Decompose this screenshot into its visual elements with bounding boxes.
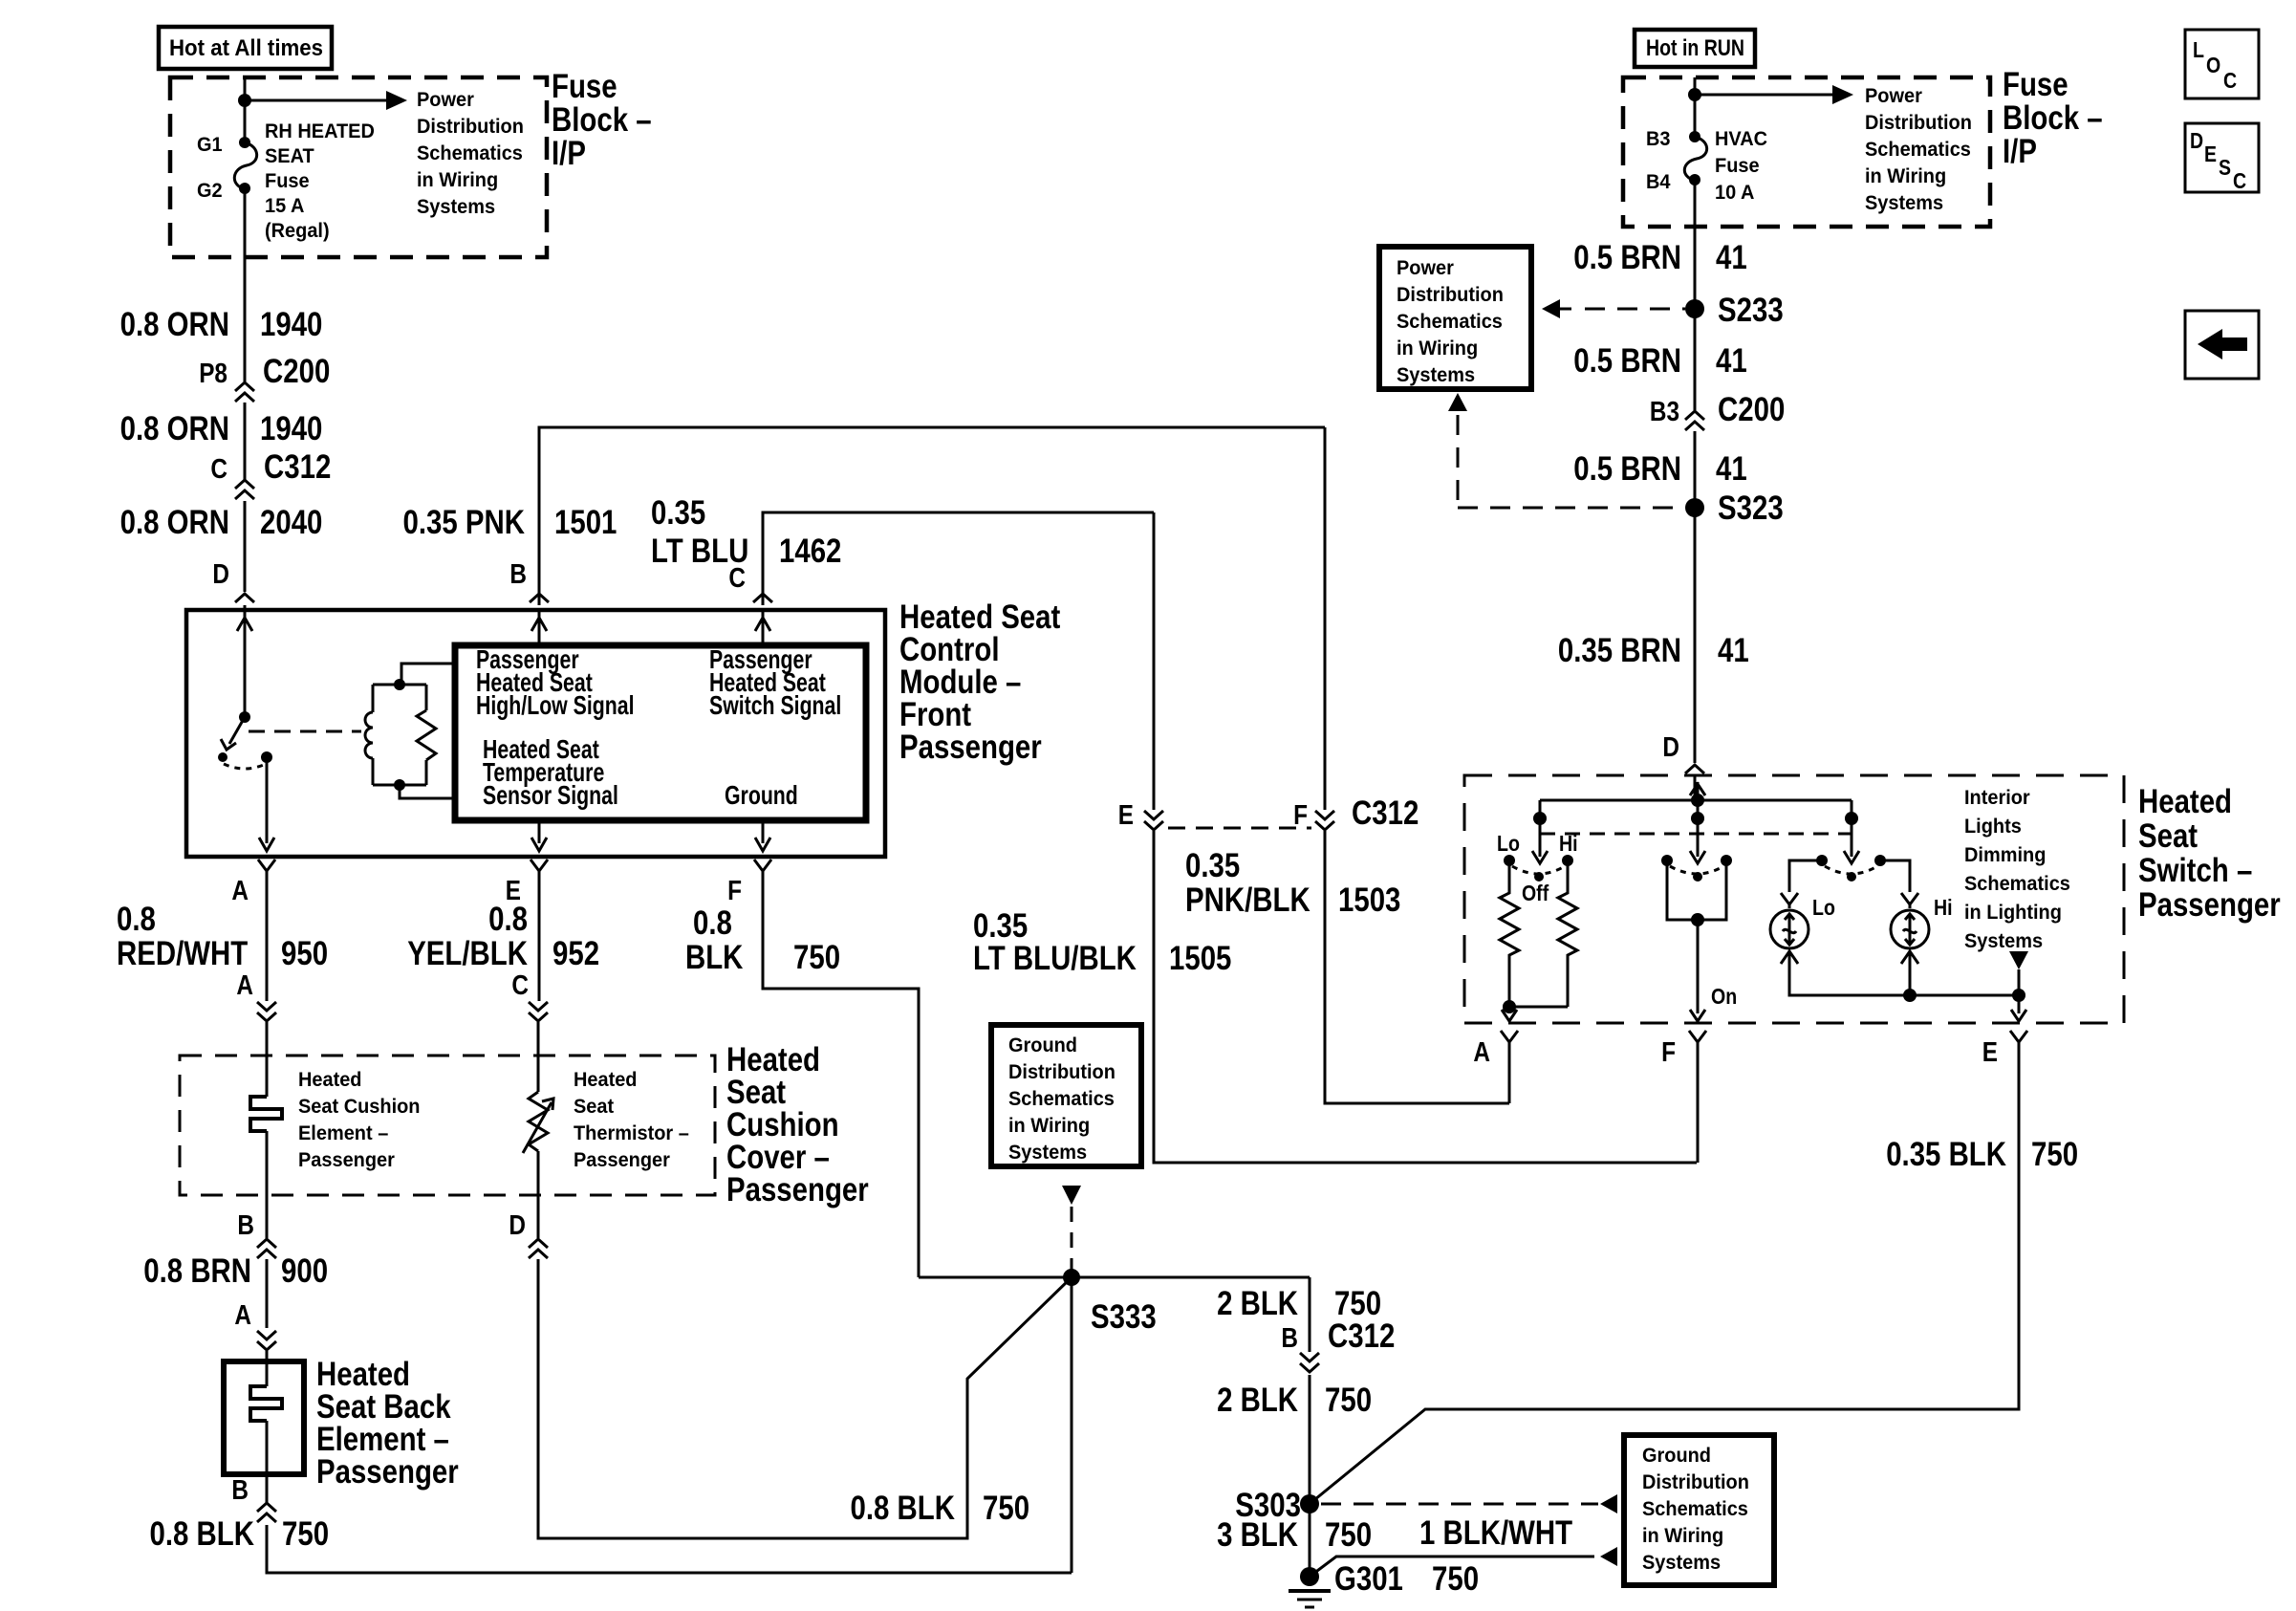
- svg-text:0.5 BRN: 0.5 BRN: [1573, 239, 1681, 276]
- svg-text:Schematics: Schematics: [1397, 311, 1503, 333]
- svg-text:Fuse: Fuse: [552, 68, 617, 105]
- svg-text:G1: G1: [197, 134, 223, 156]
- svg-text:I/P: I/P: [552, 135, 586, 172]
- svg-text:1503: 1503: [1338, 882, 1400, 919]
- svg-text:750: 750: [282, 1515, 329, 1553]
- svg-text:F: F: [1661, 1037, 1676, 1068]
- svg-text:G301: G301: [1334, 1560, 1403, 1598]
- svg-text:Passenger: Passenger: [899, 729, 1042, 766]
- svg-text:0.8: 0.8: [117, 901, 156, 938]
- svg-text:High/Low Signal: High/Low Signal: [476, 690, 635, 720]
- svg-text:C200: C200: [263, 353, 330, 390]
- svg-text:C312: C312: [1352, 795, 1419, 832]
- svg-text:Sensor Signal: Sensor Signal: [483, 780, 618, 810]
- svg-text:Distribution: Distribution: [1642, 1471, 1749, 1493]
- svg-text:G2: G2: [197, 180, 223, 202]
- svg-text:F: F: [727, 876, 742, 906]
- svg-text:E: E: [1982, 1037, 1998, 1068]
- svg-text:B: B: [509, 559, 527, 590]
- svg-text:Distribution: Distribution: [1397, 284, 1504, 306]
- svg-text:1940: 1940: [260, 410, 322, 447]
- svg-text:0.8 ORN: 0.8 ORN: [120, 504, 229, 541]
- svg-text:Schematics: Schematics: [417, 142, 523, 164]
- svg-text:O: O: [2206, 53, 2220, 77]
- svg-text:750: 750: [1325, 1382, 1372, 1419]
- svg-text:RH HEATED: RH HEATED: [265, 120, 375, 142]
- svg-text:0.35: 0.35: [1185, 847, 1240, 884]
- svg-text:Seat Cushion: Seat Cushion: [298, 1096, 421, 1118]
- svg-text:41: 41: [1716, 342, 1747, 380]
- svg-text:750: 750: [793, 939, 840, 976]
- svg-text:0.8 ORN: 0.8 ORN: [120, 410, 229, 447]
- svg-text:Lo: Lo: [1812, 895, 1835, 920]
- svg-text:Fuse: Fuse: [265, 170, 310, 192]
- svg-text:S333: S333: [1091, 1298, 1157, 1336]
- svg-text:L: L: [2193, 37, 2204, 62]
- svg-text:900: 900: [281, 1252, 328, 1290]
- svg-text:1940: 1940: [260, 306, 322, 343]
- svg-text:C312: C312: [264, 448, 331, 486]
- svg-text:D: D: [2190, 128, 2203, 153]
- svg-text:E: E: [2204, 142, 2217, 166]
- svg-text:Lights: Lights: [1964, 816, 2022, 838]
- svg-text:RED/WHT: RED/WHT: [117, 935, 248, 972]
- svg-text:Hot in RUN: Hot in RUN: [1646, 35, 1744, 61]
- svg-text:0.35: 0.35: [651, 494, 705, 532]
- svg-text:(Regal): (Regal): [265, 220, 330, 242]
- svg-text:Passenger: Passenger: [298, 1149, 395, 1171]
- svg-text:0.8 ORN: 0.8 ORN: [120, 306, 229, 343]
- svg-text:in Wiring: in Wiring: [1865, 165, 1946, 187]
- svg-text:Ground: Ground: [1008, 1034, 1077, 1056]
- svg-text:952: 952: [552, 935, 599, 972]
- svg-text:Seat: Seat: [574, 1096, 614, 1118]
- svg-text:0.35 BRN: 0.35 BRN: [1558, 632, 1681, 669]
- svg-text:Systems: Systems: [1642, 1552, 1721, 1574]
- svg-text:Distribution: Distribution: [1008, 1061, 1116, 1083]
- svg-text:Schematics: Schematics: [1008, 1088, 1115, 1110]
- svg-text:D: D: [212, 559, 229, 590]
- svg-text:Seat: Seat: [2138, 817, 2198, 855]
- svg-text:P8: P8: [199, 359, 227, 389]
- svg-text:41: 41: [1716, 450, 1747, 488]
- svg-text:2 BLK: 2 BLK: [1217, 1285, 1298, 1322]
- svg-text:Schematics: Schematics: [1865, 139, 1971, 161]
- svg-text:D: D: [509, 1210, 526, 1241]
- svg-text:Power: Power: [1397, 257, 1454, 279]
- svg-text:Systems: Systems: [1964, 930, 2043, 952]
- svg-text:Systems: Systems: [1397, 364, 1475, 386]
- svg-text:0.8 BRN: 0.8 BRN: [143, 1252, 251, 1290]
- svg-text:in Wiring: in Wiring: [1008, 1115, 1090, 1137]
- svg-text:Heated: Heated: [574, 1069, 638, 1091]
- svg-text:1505: 1505: [1169, 940, 1231, 977]
- svg-text:C: C: [2223, 68, 2237, 93]
- svg-text:Switch Signal: Switch Signal: [709, 690, 841, 720]
- svg-text:A: A: [234, 1300, 251, 1331]
- svg-text:Heated: Heated: [298, 1069, 362, 1091]
- svg-text:Hi: Hi: [1559, 831, 1578, 856]
- svg-text:LT BLU/BLK: LT BLU/BLK: [973, 940, 1137, 977]
- svg-text:F: F: [1293, 800, 1308, 831]
- svg-text:Switch –: Switch –: [2138, 852, 2252, 889]
- svg-text:HVAC: HVAC: [1715, 128, 1767, 150]
- svg-text:S: S: [2219, 155, 2231, 180]
- svg-text:Dimming: Dimming: [1964, 844, 2046, 866]
- svg-text:15 A: 15 A: [265, 195, 304, 217]
- svg-text:Systems: Systems: [1008, 1142, 1087, 1164]
- svg-text:0.35 PNK: 0.35 PNK: [403, 504, 526, 541]
- svg-text:Hi: Hi: [1934, 895, 1953, 920]
- svg-text:in Wiring: in Wiring: [1397, 337, 1478, 359]
- svg-text:Interior: Interior: [1964, 787, 2030, 809]
- svg-text:in Wiring: in Wiring: [417, 169, 498, 191]
- svg-text:1462: 1462: [779, 533, 841, 570]
- svg-text:750: 750: [983, 1490, 1029, 1527]
- svg-text:C312: C312: [1328, 1317, 1395, 1355]
- svg-text:S233: S233: [1718, 292, 1784, 329]
- svg-text:in Lighting: in Lighting: [1964, 902, 2062, 924]
- svg-text:Power: Power: [1865, 85, 1922, 107]
- svg-text:Schematics: Schematics: [1964, 873, 2070, 895]
- svg-text:41: 41: [1718, 632, 1749, 669]
- svg-text:B3: B3: [1646, 128, 1671, 150]
- svg-text:Off: Off: [1522, 881, 1549, 905]
- svg-text:C: C: [511, 970, 529, 1001]
- svg-text:1 BLK/WHT: 1 BLK/WHT: [1419, 1514, 1572, 1552]
- svg-text:B: B: [1281, 1323, 1298, 1354]
- svg-text:Block –: Block –: [2003, 99, 2103, 137]
- svg-text:Heated: Heated: [2138, 783, 2232, 820]
- svg-text:C200: C200: [1718, 391, 1785, 428]
- svg-text:950: 950: [281, 935, 328, 972]
- svg-text:0.35 BLK: 0.35 BLK: [1886, 1136, 2006, 1173]
- svg-text:Passenger: Passenger: [2138, 886, 2281, 924]
- svg-text:Passenger: Passenger: [316, 1453, 459, 1491]
- svg-text:0.8 BLK: 0.8 BLK: [150, 1515, 255, 1553]
- svg-text:Passenger: Passenger: [726, 1171, 869, 1208]
- svg-text:B: B: [231, 1475, 249, 1506]
- svg-text:SEAT: SEAT: [265, 145, 314, 167]
- svg-text:0.8: 0.8: [488, 901, 528, 938]
- svg-text:Systems: Systems: [417, 196, 495, 218]
- svg-text:10 A: 10 A: [1715, 182, 1754, 204]
- svg-text:Thermistor –: Thermistor –: [574, 1122, 689, 1144]
- svg-text:S323: S323: [1718, 490, 1784, 527]
- svg-text:Schematics: Schematics: [1642, 1498, 1748, 1520]
- svg-text:C: C: [728, 563, 746, 594]
- svg-text:E: E: [1118, 800, 1134, 831]
- svg-text:YEL/BLK: YEL/BLK: [407, 935, 528, 972]
- svg-text:Power: Power: [417, 89, 474, 111]
- svg-text:Passenger: Passenger: [574, 1149, 670, 1171]
- svg-text:2 BLK: 2 BLK: [1217, 1382, 1298, 1419]
- svg-text:Distribution: Distribution: [417, 116, 524, 138]
- svg-text:0.8 BLK: 0.8 BLK: [851, 1490, 956, 1527]
- svg-text:Block –: Block –: [552, 101, 652, 139]
- svg-text:in Wiring: in Wiring: [1642, 1525, 1723, 1547]
- svg-text:2040: 2040: [260, 504, 322, 541]
- svg-text:Ground: Ground: [725, 780, 798, 810]
- svg-text:Distribution: Distribution: [1865, 112, 1972, 134]
- svg-text:A: A: [236, 970, 253, 1001]
- svg-text:B3: B3: [1650, 397, 1679, 427]
- svg-text:3 BLK: 3 BLK: [1217, 1516, 1298, 1554]
- svg-text:Fuse: Fuse: [2003, 66, 2069, 103]
- svg-text:C: C: [2233, 168, 2246, 193]
- svg-text:Fuse: Fuse: [1715, 155, 1760, 177]
- svg-text:0.8: 0.8: [693, 904, 732, 942]
- svg-text:PNK/BLK: PNK/BLK: [1185, 882, 1310, 919]
- svg-text:0.5 BRN: 0.5 BRN: [1573, 342, 1681, 380]
- svg-text:C: C: [210, 454, 227, 485]
- svg-text:750: 750: [2031, 1136, 2078, 1173]
- svg-text:I/P: I/P: [2003, 133, 2037, 170]
- svg-text:750: 750: [1432, 1560, 1479, 1598]
- svg-text:0.5 BRN: 0.5 BRN: [1573, 450, 1681, 488]
- svg-text:On: On: [1711, 984, 1737, 1009]
- svg-text:Hot at All times: Hot at All times: [169, 35, 323, 61]
- svg-text:Lo: Lo: [1497, 831, 1520, 856]
- svg-text:D: D: [1662, 732, 1679, 763]
- svg-text:BLK: BLK: [685, 939, 743, 976]
- svg-text:41: 41: [1716, 239, 1747, 276]
- svg-text:750: 750: [1325, 1516, 1372, 1554]
- svg-text:B: B: [237, 1210, 254, 1241]
- svg-text:Systems: Systems: [1865, 192, 1943, 214]
- svg-text:Ground: Ground: [1642, 1445, 1711, 1467]
- svg-text:Element –: Element –: [298, 1122, 389, 1144]
- svg-text:A: A: [1473, 1037, 1490, 1068]
- svg-text:1501: 1501: [554, 504, 617, 541]
- svg-text:B4: B4: [1646, 171, 1671, 193]
